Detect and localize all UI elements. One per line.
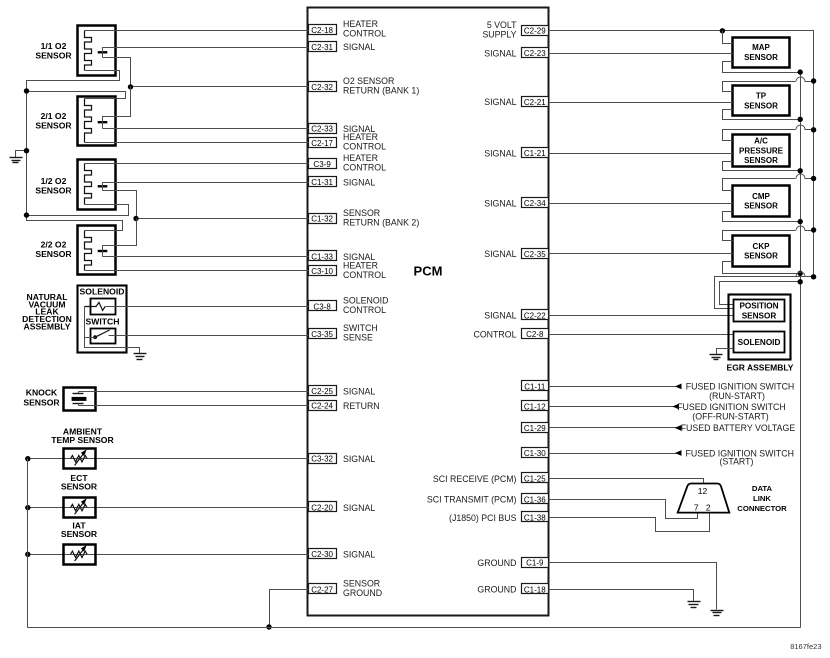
wire EGR position sensor signal to C2-22 [549, 315, 734, 317]
ambient temp sensor element [71, 449, 88, 465]
svg-text:C2-8: C2-8 [526, 330, 544, 339]
wire C1-25 SCI receive to DLC pin 12 [549, 479, 704, 484]
node CKP supply junction [811, 227, 816, 232]
svg-text:C1-9: C1-9 [526, 559, 544, 568]
ground C1-18 [688, 602, 701, 608]
PCM pin C2-29 [482, 20, 548, 40]
wire EGR solenoid control to C2-8 [549, 334, 734, 336]
PCM pin C2-35 [484, 249, 548, 260]
wire 1/2 heater ground [27, 205, 129, 216]
svg-text:O2 SENSOR: O2 SENSOR [343, 76, 394, 86]
svg-text:(OFF-RUN-START): (OFF-RUN-START) [692, 411, 768, 421]
PCM pin C1-33 [309, 251, 376, 262]
wire 1/1 sensor return [103, 58, 131, 87]
PCM pin C1-9 [477, 558, 548, 568]
svg-text:C2-30: C2-30 [311, 550, 333, 559]
svg-text:HEATER: HEATER [343, 132, 378, 142]
wire A/C supply stub [723, 130, 796, 141]
PCM pin C1-25 [433, 473, 549, 484]
wire knock signal to C2-25 [79, 391, 309, 393]
svg-text:SIGNAL: SIGNAL [343, 454, 375, 464]
svg-text:HEATER: HEATER [343, 153, 378, 163]
PCM pin C2-33 [309, 124, 376, 135]
wire 1/1 signal to C2-31 [103, 48, 309, 58]
wire 5 volt supply from C2-29 [549, 31, 814, 277]
NVLD assembly box [78, 286, 127, 353]
svg-text:CKP: CKP [753, 242, 771, 251]
wire C1-11 fused ignition switch (run-start) [549, 382, 795, 402]
wire 1/1 heater control to C2-18 [85, 30, 309, 32]
svg-text:RETURN: RETURN [343, 401, 380, 411]
svg-text:C2-17: C2-17 [311, 139, 333, 148]
svg-text:C3-10: C3-10 [311, 267, 333, 276]
wire MAP return stub [723, 62, 801, 73]
ground NVLD [134, 354, 147, 360]
node ambient return junction [25, 456, 30, 461]
CMP sensor box [733, 186, 790, 217]
PCM pin C1-30 [522, 448, 549, 458]
node TP return junction [798, 117, 803, 122]
PCM pin C1-11 [522, 381, 549, 392]
wire bank2 return to C1-32 [137, 218, 309, 220]
svg-text:SENSOR: SENSOR [343, 208, 380, 218]
wire 2/1 heater control to C2-17 [85, 142, 309, 144]
svg-text:C2-34: C2-34 [524, 199, 546, 208]
PCM pin C3-10 [309, 260, 387, 280]
svg-text:C1-25: C1-25 [524, 475, 546, 484]
PCM pin C2-27 [309, 579, 383, 599]
svg-text:C1-31: C1-31 [311, 178, 333, 187]
svg-text:SCI RECEIVE (PCM): SCI RECEIVE (PCM) [433, 474, 517, 484]
svg-text:C1-18: C1-18 [524, 585, 546, 594]
node CMP supply junction [811, 176, 816, 181]
node IAT return junction [25, 552, 30, 557]
svg-text:(RUN-START): (RUN-START) [709, 391, 765, 401]
svg-text:SENSOR: SENSOR [23, 398, 60, 408]
svg-text:C2-27: C2-27 [311, 585, 333, 594]
IAT sensor element [71, 545, 88, 561]
svg-text:7: 7 [694, 502, 699, 512]
NVLD label [22, 292, 72, 331]
wire TP return stub [723, 110, 801, 120]
PCM pin C1-21 [484, 148, 548, 159]
knock sensor label [23, 388, 60, 408]
svg-text:SENSOR: SENSOR [343, 579, 380, 589]
svg-text:FUSED BATTERY VOLTAGE: FUSED BATTERY VOLTAGE [681, 423, 796, 433]
svg-text:C2-22: C2-22 [524, 311, 546, 320]
svg-text:SIGNAL: SIGNAL [484, 149, 516, 159]
svg-text:EGR ASSEMBLY: EGR ASSEMBLY [727, 362, 794, 372]
svg-text:SIGNAL: SIGNAL [484, 97, 516, 107]
svg-text:C1-30: C1-30 [524, 449, 546, 458]
svg-text:GROUND: GROUND [477, 585, 516, 595]
PCM pin C2-18 [309, 19, 387, 38]
ambient temp sensor box [64, 449, 96, 469]
PCM pin C1-18 [477, 584, 548, 595]
svg-text:CONTROL: CONTROL [343, 305, 386, 315]
data link connector body [678, 484, 730, 513]
svg-text:C1-36: C1-36 [524, 495, 546, 504]
svg-text:C2-25: C2-25 [311, 387, 333, 396]
PCM pin C2-8 [473, 329, 548, 340]
svg-text:SCI TRANSMIT (PCM): SCI TRANSMIT (PCM) [427, 495, 517, 505]
wire EGR solenoid ground [717, 349, 734, 355]
wire 2/2 heater control to C3-10 [85, 270, 309, 272]
svg-text:SIGNAL: SIGNAL [484, 311, 516, 321]
svg-text:SIGNAL: SIGNAL [343, 503, 375, 513]
wire bank1 return to C2-32 [131, 86, 309, 88]
svg-text:SIGNAL: SIGNAL [343, 387, 375, 397]
wire sensor return bus right [800, 73, 802, 628]
svg-text:SWITCH: SWITCH [86, 316, 120, 326]
wire CMP signal to C2-34 [549, 203, 733, 205]
svg-text:SOLENOID: SOLENOID [80, 287, 125, 297]
svg-text:C1-38: C1-38 [524, 514, 546, 523]
knock sensor box [64, 388, 96, 411]
node MAP return junction [798, 69, 803, 74]
svg-text:C2-29: C2-29 [524, 27, 546, 36]
node sensor ground junction [266, 624, 271, 629]
svg-text:C3-8: C3-8 [313, 302, 331, 311]
PCM pin C1-12 [522, 401, 549, 412]
node EGR supply junction [811, 274, 816, 279]
wire NVLD solenoid control to C3-8 [105, 306, 309, 308]
2/2 O2 sensing element [98, 250, 108, 252]
svg-text:C2-21: C2-21 [524, 98, 546, 107]
wire C1-9 ground [549, 563, 717, 610]
wire C1-36 SCI transmit to DLC pin 7 [549, 500, 698, 519]
wire 2/1 heater ground [27, 92, 126, 99]
svg-text:C2-33: C2-33 [311, 125, 333, 134]
PCM pin C2-24 [309, 401, 380, 412]
1/2 O2 sensing element [98, 185, 108, 187]
svg-text:SIGNAL: SIGNAL [484, 249, 516, 259]
svg-text:SENSOR: SENSOR [744, 202, 778, 211]
svg-text:C1-12: C1-12 [524, 402, 546, 411]
wire CMP supply stub [723, 179, 796, 191]
svg-text:DATA: DATA [752, 484, 773, 493]
CKP sensor box [733, 236, 790, 267]
wire TP supply stub [723, 82, 796, 92]
wire 1/1 heater ground + ground bus + 2/2 heater ground [27, 71, 123, 231]
svg-text:SIGNAL: SIGNAL [343, 42, 375, 52]
svg-text:FUSED IGNITION SWITCH: FUSED IGNITION SWITCH [686, 382, 795, 392]
svg-text:KNOCK: KNOCK [26, 388, 58, 398]
wire A/C signal to C1-21 [549, 153, 733, 155]
PCM pin C2-21 [484, 97, 548, 108]
node bank2 return junction [133, 216, 138, 221]
DATA LINK CONNECTOR label [737, 484, 787, 513]
wire 2/2 signal to C1-33 [103, 256, 309, 258]
node CKP return junction [798, 271, 803, 276]
node ECT return junction [25, 505, 30, 510]
svg-text:POSITION: POSITION [739, 302, 778, 311]
wire temp sensor return bus [27, 459, 29, 628]
ground C1-9 [711, 611, 724, 616]
node CMP return junction [798, 219, 803, 224]
wire C2-27 sensor ground [270, 590, 309, 628]
svg-text:C1-32: C1-32 [311, 215, 333, 224]
NVLD switch box [91, 329, 116, 344]
PCM pin C2-25 [309, 386, 376, 397]
ECT sensor element [71, 498, 88, 514]
svg-text:C2-24: C2-24 [311, 402, 333, 411]
svg-text:SENSOR: SENSOR [744, 53, 778, 62]
node 2/1 ground junction [24, 88, 29, 93]
PCM pin C2-31 [309, 42, 376, 53]
A/C pressure sensor box [733, 135, 790, 167]
wire C1-12 fused ignition switch (off-run-start) [549, 402, 786, 422]
svg-text:LINK: LINK [753, 494, 771, 503]
wire CKP signal to C2-35 [549, 253, 733, 255]
ECT sensor label [61, 473, 98, 492]
svg-text:C1-33: C1-33 [311, 253, 333, 262]
wire 1/2 signal to C1-31 [103, 183, 309, 191]
svg-text:(START): (START) [720, 457, 754, 467]
TP sensor box [733, 86, 790, 116]
PCM pin C2-22 [484, 310, 548, 321]
wire EGR position sensor return [720, 282, 801, 305]
EGR solenoid box [734, 332, 785, 353]
wire ambient temp sensor to C3-32 [28, 458, 309, 460]
svg-text:C1-11: C1-11 [524, 382, 546, 391]
wire EGR position sensor supply [796, 276, 814, 278]
svg-text:C2-20: C2-20 [311, 504, 333, 513]
node EGR return junction [798, 279, 803, 284]
svg-text:SENSOR: SENSOR [35, 185, 72, 195]
svg-text:HEATER: HEATER [343, 19, 378, 29]
svg-text:SUPPLY: SUPPLY [482, 29, 516, 39]
ground EGR [710, 355, 723, 360]
PCM pin C2-23 [484, 48, 548, 59]
svg-text:C2-32: C2-32 [311, 83, 333, 92]
ECT sensor box [64, 498, 96, 518]
svg-text:SENSOR: SENSOR [744, 252, 778, 261]
svg-text:RETURN (BANK 2): RETURN (BANK 2) [343, 217, 419, 227]
wire MAP supply stub [723, 31, 733, 44]
O2 sensor 1/1 [35, 26, 115, 76]
wire 2/1 sensor return [103, 87, 131, 129]
svg-text:2: 2 [706, 502, 711, 512]
node 1/2 ground junction [24, 212, 29, 217]
wire 2/1 signal to C2-33 [103, 128, 309, 130]
svg-text:SENSOR: SENSOR [61, 482, 98, 492]
svg-text:C1-21: C1-21 [524, 149, 546, 158]
node MAP supply junction [720, 28, 725, 33]
svg-text:SENSOR: SENSOR [744, 156, 778, 165]
PCM pin C1-38 [449, 512, 548, 523]
node ground bus junction [24, 148, 29, 153]
svg-text:CONTROL: CONTROL [473, 329, 516, 339]
svg-text:8167fe23: 8167fe23 [790, 642, 821, 651]
knock sensor element [72, 392, 87, 406]
svg-text:5 VOLT: 5 VOLT [487, 20, 517, 30]
2/1 O2 sensing element [98, 121, 108, 123]
svg-text:CONTROL: CONTROL [343, 142, 386, 152]
svg-text:SENSOR: SENSOR [35, 50, 72, 60]
EGR position sensor box [734, 300, 785, 322]
wire knock return to C2-24 [79, 405, 309, 407]
svg-text:SENSOR: SENSOR [35, 120, 72, 130]
PCM pin C3-8 [309, 296, 389, 316]
NVLD solenoid box [91, 299, 116, 315]
wire C1-18 ground [549, 590, 694, 602]
wire TP signal to C2-21 [549, 102, 733, 104]
svg-text:C3-9: C3-9 [313, 160, 331, 169]
wire ground stub [16, 151, 27, 158]
PCM pin C1-29 [522, 423, 549, 433]
wire 1/2 sensor return [103, 191, 137, 219]
wire ECT sensor to C2-20 [28, 507, 309, 509]
svg-text:TEMP SENSOR: TEMP SENSOR [51, 435, 114, 445]
wire CKP supply stub [723, 231, 796, 241]
O2 sensor 2/1 [35, 97, 115, 146]
node TP supply junction [811, 78, 816, 83]
svg-text:C2-31: C2-31 [311, 43, 333, 52]
node A/C return junction [798, 168, 803, 173]
wire C1-29 fused battery voltage [549, 423, 796, 433]
svg-text:SENSOR: SENSOR [742, 311, 777, 320]
wire CKP return stub [723, 262, 801, 274]
NVLD solenoid coil [85, 302, 106, 310]
wire NVLD internal ground bus [85, 307, 140, 354]
wire C1-30 fused ignition switch (start) [549, 448, 795, 466]
wire 1/2 heater control to C3-9 [85, 163, 309, 165]
wire bottom sensor ground bus [28, 627, 801, 629]
svg-text:SOLENOID: SOLENOID [343, 296, 388, 306]
NVLD switch lever [95, 330, 110, 337]
svg-text:A/C: A/C [754, 137, 768, 146]
PCM pin C3-32 [309, 454, 376, 464]
PCM pin C2-20 [309, 502, 376, 513]
wire IAT sensor to C2-30 [28, 554, 309, 556]
svg-text:CONTROL: CONTROL [343, 29, 386, 39]
node A/C supply junction [811, 127, 816, 132]
PCM pin C2-34 [484, 198, 548, 209]
PCM pin C3-9 [309, 153, 387, 173]
PCM pin C3-35 [309, 323, 378, 343]
svg-text:TP: TP [756, 92, 767, 101]
PCM pin C2-30 [309, 549, 376, 560]
wire NVLD switch to ground bus [85, 337, 96, 339]
svg-text:PCM: PCM [414, 264, 443, 279]
svg-text:12: 12 [698, 486, 708, 496]
svg-text:RETURN (BANK 1): RETURN (BANK 1) [343, 86, 419, 96]
svg-text:C2-23: C2-23 [524, 49, 546, 58]
wire NVLD switch sense to C3-35 [109, 335, 309, 337]
svg-text:CONTROL: CONTROL [343, 163, 386, 173]
PCM pin C2-32 [309, 76, 420, 96]
wire 2/2 sensor return [103, 219, 137, 257]
PCM pin C1-32 [309, 208, 420, 228]
PCM pin C1-31 [309, 177, 376, 188]
O2 sensor 2/2 [35, 226, 115, 275]
svg-text:SENSOR: SENSOR [35, 249, 72, 259]
svg-text:C3-35: C3-35 [311, 330, 333, 339]
svg-text:(J1850) PCI BUS: (J1850) PCI BUS [449, 513, 517, 523]
svg-text:C2-18: C2-18 [311, 26, 333, 35]
IAT sensor label [61, 521, 98, 540]
ground O2 sensors chassis ground [10, 158, 23, 163]
wire MAP signal to C2-23 [549, 53, 733, 55]
svg-text:GROUND: GROUND [477, 558, 516, 568]
svg-text:CMP: CMP [752, 192, 770, 201]
1/1 O2 sensing element [98, 51, 108, 53]
svg-text:PRESSURE: PRESSURE [739, 146, 784, 155]
svg-text:SIGNAL: SIGNAL [343, 550, 375, 560]
PCM pin C2-17 [309, 132, 387, 152]
svg-text:C3-32: C3-32 [311, 455, 333, 464]
svg-text:C1-29: C1-29 [524, 424, 546, 433]
svg-text:SIGNAL: SIGNAL [484, 48, 516, 58]
svg-text:SIGNAL: SIGNAL [484, 199, 516, 209]
svg-text:SOLENOID: SOLENOID [738, 338, 781, 347]
PCM module box [308, 8, 549, 616]
MAP sensor box [733, 38, 790, 68]
svg-text:SWITCH: SWITCH [343, 323, 378, 333]
wire C1-38 PCI bus to DLC pin 2 [549, 513, 710, 532]
ambient temp sensor label [51, 426, 114, 445]
svg-text:GROUND: GROUND [343, 588, 382, 598]
svg-text:CONTROL: CONTROL [343, 270, 386, 280]
svg-text:SENSOR: SENSOR [61, 529, 98, 539]
IAT sensor box [64, 545, 96, 565]
svg-text:HEATER: HEATER [343, 260, 378, 270]
svg-text:SIGNAL: SIGNAL [343, 178, 375, 188]
PCM pin C1-36 [427, 494, 549, 505]
svg-text:C2-35: C2-35 [524, 250, 546, 259]
EGR assembly box [729, 295, 791, 360]
svg-text:MAP: MAP [752, 43, 770, 52]
svg-text:SENSE: SENSE [343, 333, 373, 343]
node bank1 return junction [128, 84, 133, 89]
O2 sensor 1/2 [35, 160, 115, 210]
svg-text:ASSEMBLY: ASSEMBLY [24, 321, 71, 331]
wire CMP return stub [723, 212, 801, 222]
wire A/C return stub [723, 162, 801, 171]
svg-text:SENSOR: SENSOR [744, 101, 778, 110]
svg-text:FUSED IGNITION SWITCH: FUSED IGNITION SWITCH [677, 402, 786, 412]
NVLD switch contact [93, 335, 97, 339]
svg-text:CONNECTOR: CONNECTOR [737, 504, 787, 513]
